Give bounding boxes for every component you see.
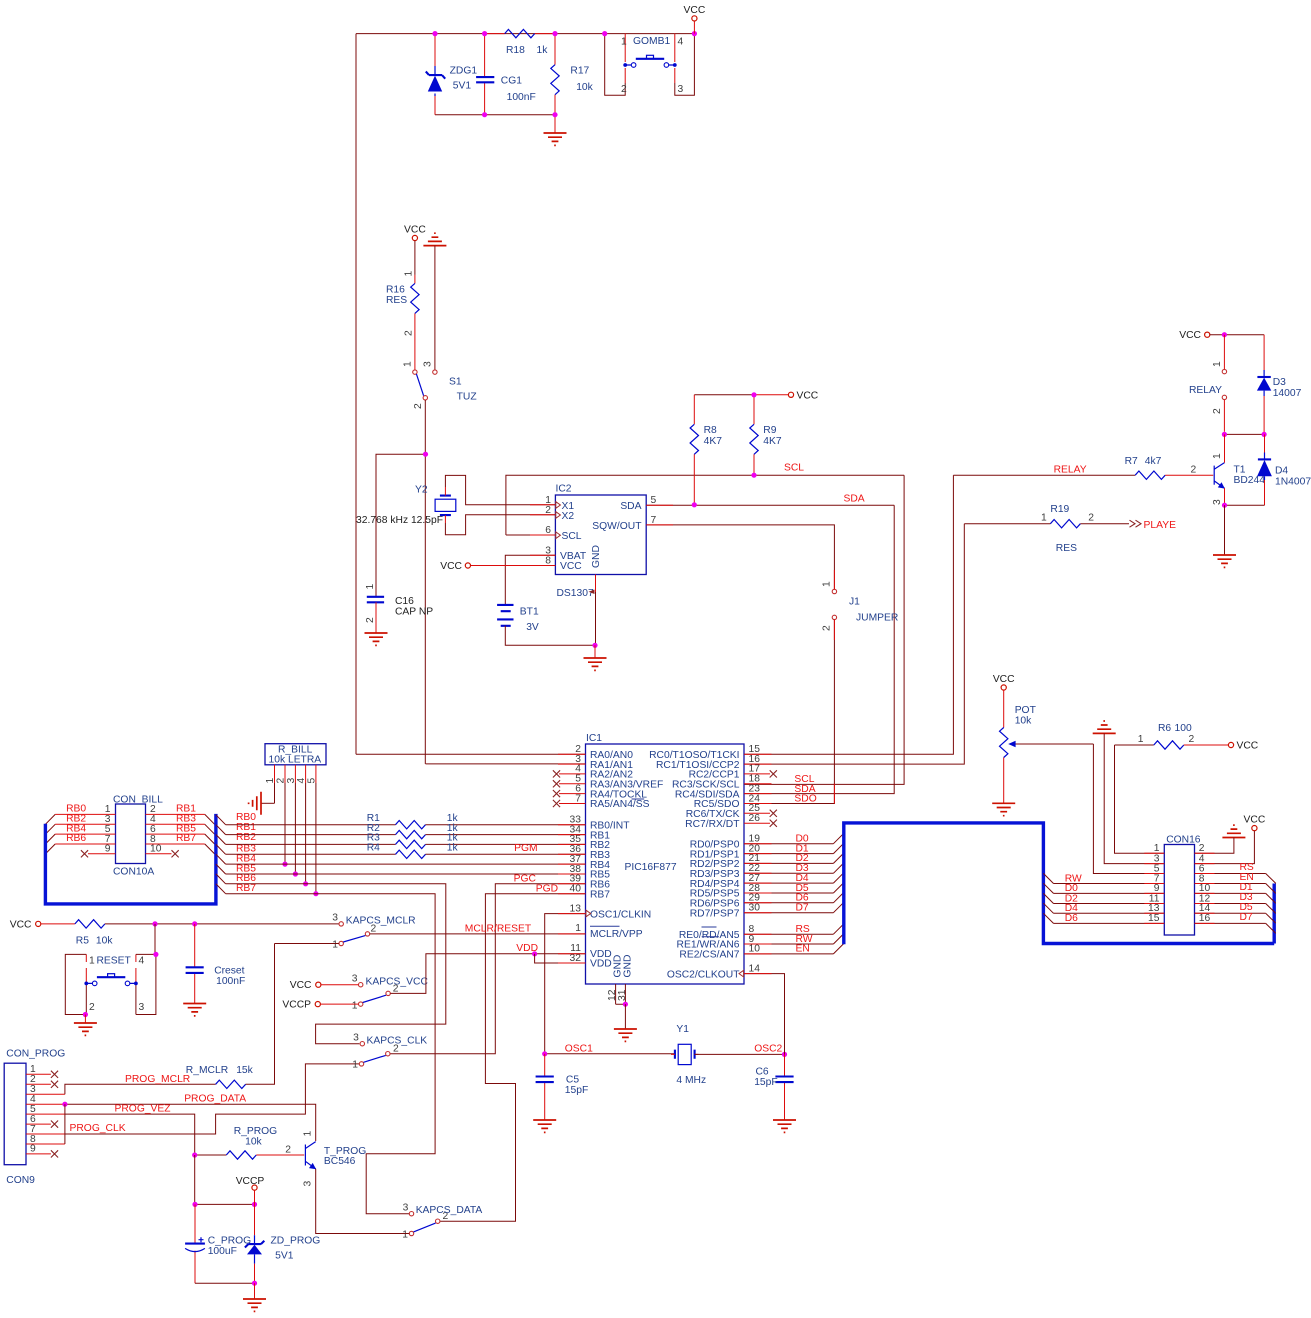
svg-text:RELAY: RELAY xyxy=(1054,464,1087,475)
wire net OSC1 xyxy=(545,1053,675,1055)
wire GND pins to ground xyxy=(624,1004,626,1029)
svg-text:VCC: VCC xyxy=(290,980,312,991)
bus entry CON_BILL pin 3 xyxy=(45,824,55,834)
svg-text:1: 1 xyxy=(1212,453,1223,459)
svg-text:EN: EN xyxy=(796,944,810,955)
bus entry D1 xyxy=(1266,893,1276,903)
wire net D5 from CON16 xyxy=(1195,912,1266,914)
IC1 pin numbers xyxy=(570,744,761,1001)
svg-text:14: 14 xyxy=(749,963,761,974)
wire OSC2 to IC1 pin14 xyxy=(744,974,785,1055)
svg-text:VCC: VCC xyxy=(404,225,426,236)
wire R_BILL pin 3 xyxy=(294,765,296,783)
wire net D2 from IC1 xyxy=(744,862,833,864)
bus entry RS xyxy=(833,924,843,934)
capacitor CG1 100nF xyxy=(476,34,536,115)
svg-text:100nF: 100nF xyxy=(216,976,245,987)
wire net SDA from IC2 SDA xyxy=(646,504,894,506)
svg-text:ZD_PROG: ZD_PROG xyxy=(271,1235,321,1246)
svg-text:PROG_VEZ: PROG_VEZ xyxy=(115,1104,171,1115)
IC1 right pin names xyxy=(649,750,740,980)
svg-text:8: 8 xyxy=(545,556,551,567)
svg-text:VCC: VCC xyxy=(1179,330,1201,341)
svg-text:RA5/AN4/SS: RA5/AN4/SS xyxy=(590,799,650,810)
wire net EN from IC1 xyxy=(744,953,833,955)
junction VDD pin11/pin32 xyxy=(532,951,537,956)
bus exit RB2 xyxy=(216,835,226,845)
power VCC xyxy=(440,561,470,572)
ground at R_BILL pin1 (rotated) xyxy=(249,792,261,815)
bus exit D4 xyxy=(1043,903,1053,913)
wire net D0 from IC1 xyxy=(744,843,833,845)
svg-text:9: 9 xyxy=(30,1144,36,1155)
pushbutton GOMB1 xyxy=(605,34,695,96)
svg-text:R6: R6 xyxy=(1158,723,1171,734)
svg-text:S1: S1 xyxy=(449,376,462,387)
power VCCP xyxy=(236,1176,265,1190)
junction VCCP / ZD_PROG xyxy=(252,1202,257,1207)
bus exit RB7 xyxy=(216,884,226,894)
svg-text:VCC: VCC xyxy=(10,919,32,930)
svg-text:1: 1 xyxy=(89,956,95,967)
svg-text:VCC: VCC xyxy=(1244,815,1266,826)
wire CON_BILL pin 9 (NC) xyxy=(88,853,116,855)
wire net D6 from IC1 xyxy=(744,902,833,904)
junction R_BILL pin4 / RB6 xyxy=(303,881,308,886)
svg-text:15k: 15k xyxy=(236,1065,253,1076)
wire CON_PROG pin4-pin8 vertical xyxy=(64,1104,66,1144)
wire net RA0 long vertical xyxy=(355,34,357,755)
svg-text:IC1: IC1 xyxy=(586,733,602,744)
bus entry D5 xyxy=(1266,913,1276,923)
svg-text:5V1: 5V1 xyxy=(275,1251,294,1262)
svg-text:3: 3 xyxy=(352,974,358,985)
junction D3 anode link xyxy=(1262,432,1267,437)
bus exit RB6 xyxy=(216,874,226,884)
svg-text:SDA: SDA xyxy=(620,501,641,512)
wire KAPCS_MCLR pin1 to R_MCLR xyxy=(275,943,340,945)
wire net RELAY down to IC1 RC0 xyxy=(744,475,953,754)
power VCC xyxy=(10,919,41,930)
capacitor C_PROG 100uF (electrolytic) xyxy=(185,1204,251,1283)
svg-text:2: 2 xyxy=(1191,464,1197,475)
bus entry D7 xyxy=(1266,923,1276,933)
J1 pin leads xyxy=(833,570,835,804)
bus entry CON_BILL pin 8 xyxy=(205,844,215,854)
wire net RB7 (to KAPCS_DATA pin3) xyxy=(226,894,436,1214)
wire CON_BILL pin 5 xyxy=(55,833,115,835)
junction CON_PROG pin4 / pin8 link xyxy=(62,1102,67,1107)
power VCCP xyxy=(282,1000,320,1011)
junction R_BILL pin3 / RB5 xyxy=(293,871,298,876)
wire net D1 from CON16 xyxy=(1195,892,1266,894)
switch KAPCS_VCC xyxy=(352,974,429,1012)
svg-text:RESET: RESET xyxy=(97,956,132,967)
wire net D7 from IC1 xyxy=(744,912,833,914)
wire IC2 GND pin down xyxy=(595,575,597,646)
wire net RB6 (to KAPCS_CLK pin3) xyxy=(226,884,446,1044)
resistor R7 4k7 xyxy=(953,456,1213,479)
wire RA0 stub xyxy=(356,753,586,755)
junction RA1 wire / C16 branch xyxy=(423,452,428,457)
svg-text:PGM: PGM xyxy=(514,843,537,854)
svg-text:32: 32 xyxy=(570,953,582,964)
svg-text:1: 1 xyxy=(352,1060,358,1071)
wire VCC rail to D3 xyxy=(1210,334,1264,336)
ground under Creset xyxy=(183,1004,206,1016)
svg-text:RE2/CS/AN7: RE2/CS/AN7 xyxy=(679,950,739,961)
svg-text:RB7: RB7 xyxy=(590,889,610,900)
wire ground to S1 pin3 xyxy=(434,246,436,370)
svg-text:1: 1 xyxy=(352,1000,358,1011)
no-connect X pin 10 xyxy=(172,850,179,857)
svg-text:Creset: Creset xyxy=(214,965,244,976)
bus exit RB3 xyxy=(216,844,226,854)
svg-text:1: 1 xyxy=(822,581,833,587)
wire net RB0 with resistor R1 1k xyxy=(226,824,396,826)
svg-text:15: 15 xyxy=(1148,913,1160,924)
svg-text:1k: 1k xyxy=(447,843,459,854)
wire IC1 NC pin stub xyxy=(559,803,586,805)
svg-text:T1: T1 xyxy=(1234,465,1246,476)
bus entry D0 xyxy=(833,833,843,843)
svg-text:PROG_MCLR: PROG_MCLR xyxy=(125,1074,190,1085)
junction R5 / RESET xyxy=(152,921,157,926)
wire net RW to CON16 xyxy=(1054,883,1165,885)
svg-text:1: 1 xyxy=(403,361,414,367)
wire ground to CON16 pin3 xyxy=(1104,733,1164,863)
svg-text:10k: 10k xyxy=(1015,716,1032,727)
capacitor C16 CAP NP xyxy=(365,584,433,634)
wire RA1 stub xyxy=(426,763,586,765)
wire CON_BILL pin 2 xyxy=(146,813,205,815)
svg-text:SQW/OUT: SQW/OUT xyxy=(592,521,642,532)
wire RELAY pin2 to D3 anode xyxy=(1224,433,1264,435)
wire net SQW to jumper J1 xyxy=(646,525,834,589)
bus entry D4 xyxy=(833,873,843,883)
svg-text:15pF: 15pF xyxy=(565,1085,588,1096)
no-connect X xyxy=(553,790,560,797)
bus entry RW xyxy=(833,934,843,944)
svg-text:BC546: BC546 xyxy=(324,1156,356,1167)
no-connect X xyxy=(770,770,777,777)
svg-text:PLAYE: PLAYE xyxy=(1144,520,1177,531)
svg-text:VCCP: VCCP xyxy=(236,1176,265,1187)
svg-text:BT1: BT1 xyxy=(520,607,539,618)
bus exit RW xyxy=(1043,873,1053,883)
wire IC1 NC pin stub xyxy=(559,783,586,785)
resistor R19 RES xyxy=(964,504,1129,554)
ground under IC1 xyxy=(614,1029,637,1041)
bus entry CON_BILL pin 2 xyxy=(205,814,215,824)
svg-text:5: 5 xyxy=(651,495,657,506)
transistor T1 BD244 xyxy=(1212,434,1265,505)
wire net VDD xyxy=(390,954,585,994)
wire T_PROG emitter to KAPCS_DATA pin1 xyxy=(316,1169,410,1234)
svg-text:PGC: PGC xyxy=(514,873,537,884)
svg-text:2: 2 xyxy=(1212,408,1223,414)
junction top rail / CG1 xyxy=(482,31,487,36)
bus LCD (thick blue) xyxy=(844,823,1274,944)
svg-text:3V: 3V xyxy=(526,622,539,633)
wire net RB2 with resistor R3 1k xyxy=(226,843,396,845)
power VCC xyxy=(1244,815,1266,831)
junction R8 / SDA xyxy=(692,502,697,507)
ground under POT xyxy=(992,803,1015,815)
ground under ZD_PROG xyxy=(243,1299,266,1311)
zener diode ZD_PROG 5V1 xyxy=(245,1204,320,1283)
wire IC1 NC pin stub xyxy=(559,793,586,795)
svg-text:VCC: VCC xyxy=(797,390,819,401)
svg-text:15pF: 15pF xyxy=(754,1077,777,1088)
power VCC xyxy=(1228,741,1258,752)
svg-text:JUMPER: JUMPER xyxy=(856,613,898,624)
ground above S1 pin3 (inverted) xyxy=(423,233,446,245)
wire net PROG_CLK xyxy=(65,1064,359,1134)
wire IC1 GND pins 12/31 xyxy=(616,984,626,1004)
bus entry CON_BILL pin 5 xyxy=(45,834,55,844)
svg-text:GND: GND xyxy=(591,545,602,568)
svg-text:7: 7 xyxy=(575,793,581,804)
svg-text:2: 2 xyxy=(404,330,415,336)
wire VCC to IC2 pin8 xyxy=(468,565,556,567)
wire VCC to KAPCS_VCC pin3 xyxy=(321,984,359,986)
junction R8/R9 rail xyxy=(751,392,756,397)
wire net D3 from CON16 xyxy=(1195,903,1266,905)
wire BT1 minus to ground node xyxy=(505,626,595,646)
svg-text:D4: D4 xyxy=(1275,466,1288,477)
svg-text:2: 2 xyxy=(822,625,833,631)
wire VCCP to KAPCS_VCC pin1 xyxy=(320,1003,358,1005)
junction RELAY pin2 / T1 collector xyxy=(1222,432,1227,437)
no-connect X xyxy=(770,810,777,817)
svg-text:26: 26 xyxy=(749,813,761,824)
switch KAPCS_MCLR xyxy=(332,913,415,951)
wire net RB1 with resistor R2 1k xyxy=(226,834,396,836)
bus exit RB5 xyxy=(216,864,226,874)
svg-text:4: 4 xyxy=(678,37,684,48)
ground under T1 xyxy=(1213,555,1236,567)
capacitor C5 15pF xyxy=(536,1054,589,1120)
svg-text:D7: D7 xyxy=(796,903,809,914)
zener diode ZDG1 xyxy=(426,34,478,115)
svg-text:C16: C16 xyxy=(395,596,414,607)
switch KAPCS_DATA xyxy=(402,1202,482,1240)
wire C_PROG to ZD_PROG bottom xyxy=(195,1282,255,1284)
svg-text:MCLR/RESET: MCLR/RESET xyxy=(465,924,532,935)
svg-text:100nF: 100nF xyxy=(507,92,536,103)
junction OSC1 / C5 xyxy=(542,1051,547,1056)
svg-text:10: 10 xyxy=(749,944,761,955)
svg-text:4k7: 4k7 xyxy=(1145,456,1162,467)
svg-text:VCC: VCC xyxy=(560,561,582,572)
svg-text:R16: R16 xyxy=(386,285,405,296)
connector CON16 box xyxy=(1164,835,1201,936)
svg-text:2: 2 xyxy=(285,1144,291,1155)
bus entry D5 xyxy=(833,883,843,893)
wire IC1 NC pin stub xyxy=(744,822,770,824)
no-connect X CON_PROG pin 9 xyxy=(51,1150,58,1157)
wire CON_PROG pin 7 xyxy=(26,1133,65,1135)
wire net OSC1 vertical xyxy=(545,914,586,1054)
connector CON_BILL CON10A box xyxy=(113,795,163,878)
junction R_BILL pin2 / RB4 xyxy=(282,862,287,867)
wire CON_PROG pin 3 xyxy=(26,1093,65,1095)
wire net D6 to CON16 xyxy=(1054,922,1165,924)
bus entry CON_BILL pin 1 xyxy=(45,814,55,824)
wire net D4 to CON16 xyxy=(1054,912,1165,914)
wire CON_BILL pin 10 (NC) xyxy=(146,853,172,855)
resistor R_PROG 10k xyxy=(195,1126,305,1159)
svg-text:R5: R5 xyxy=(76,935,89,946)
wire R_BILL pin 4 xyxy=(305,765,307,783)
wire CON_PROG pin 9 xyxy=(26,1153,51,1155)
wire Y2 bottom to IC2 X2 xyxy=(445,515,555,535)
svg-text:GOMB1: GOMB1 xyxy=(633,36,670,47)
wire net D7 from CON16 xyxy=(1195,922,1266,924)
svg-text:10k: 10k xyxy=(96,935,113,946)
wire IC2 VBAT to BT1 xyxy=(505,555,555,605)
svg-text:10k LETRA: 10k LETRA xyxy=(269,755,322,766)
svg-text:RES: RES xyxy=(1056,543,1077,554)
svg-text:VCCP: VCCP xyxy=(282,1000,311,1011)
ground under RESET xyxy=(74,1023,97,1035)
svg-text:10k: 10k xyxy=(576,82,593,93)
svg-text:CG1: CG1 xyxy=(501,76,522,87)
junction R9 / SCL xyxy=(751,473,756,478)
wire T1 emitter to D4 xyxy=(1225,504,1265,506)
wire net D3 from IC1 xyxy=(744,872,833,874)
wire R_BILL pin 2 xyxy=(284,765,286,783)
wire ground to CON16 pin2 xyxy=(1195,838,1234,854)
junction top rail / GOMB1 bracket xyxy=(602,31,607,36)
wire R9 rail to VCC xyxy=(754,394,788,396)
svg-text:1: 1 xyxy=(575,923,581,934)
svg-text:D6: D6 xyxy=(1065,913,1078,924)
wire VDD to pin 32 xyxy=(535,954,586,963)
junction top rail / R17 xyxy=(552,31,557,36)
wire net MCLR/RESET xyxy=(370,933,586,935)
resistor R5 10k xyxy=(41,920,339,947)
svg-text:J1: J1 xyxy=(849,597,860,608)
IC1 left pin names xyxy=(590,750,663,978)
wire net RB5 xyxy=(226,873,586,875)
wire net PROG_VEZ xyxy=(65,1114,195,1155)
svg-text:OSC2: OSC2 xyxy=(754,1043,782,1054)
diode D4 1N4007 xyxy=(1257,434,1311,505)
wire CON_BILL pin 1 xyxy=(55,813,115,815)
svg-text:13: 13 xyxy=(570,903,582,914)
svg-text:VCC: VCC xyxy=(993,674,1015,685)
svg-text:3: 3 xyxy=(302,1181,313,1187)
bus exit RB1 xyxy=(216,825,226,835)
wire CON_BILL pin 6 xyxy=(146,833,205,835)
svg-text:30: 30 xyxy=(749,903,761,914)
wire net SDA down to IC1 RC4 xyxy=(744,505,894,793)
jumper J1 xyxy=(822,581,899,631)
wire VCC to CON16 pin4 xyxy=(1195,831,1255,864)
svg-text:RELAY: RELAY xyxy=(1189,385,1222,396)
bus entry EN xyxy=(833,944,843,954)
svg-text:VCC: VCC xyxy=(1237,741,1259,752)
svg-text:3: 3 xyxy=(678,84,684,95)
wire bottom rail to ground xyxy=(435,114,555,116)
wire net SCL down to IC1 RC3 xyxy=(744,475,904,784)
junction top rail / ZDG1 xyxy=(432,31,437,36)
svg-text:31: 31 xyxy=(617,989,628,1001)
svg-text:VCC: VCC xyxy=(684,5,706,16)
svg-text:3: 3 xyxy=(353,1032,359,1043)
junction top rail / VCC drop xyxy=(692,31,697,36)
svg-text:32.768 kHz 12.5pF: 32.768 kHz 12.5pF xyxy=(356,515,443,526)
wire R16 to S1 xyxy=(414,341,416,370)
svg-text:C6: C6 xyxy=(756,1066,769,1077)
svg-text:2: 2 xyxy=(621,84,627,95)
bus entry EN xyxy=(1266,884,1276,894)
svg-text:SCL: SCL xyxy=(784,463,804,474)
wire net D0 to CON16 xyxy=(1054,892,1165,894)
wire CON_BILL pin 3 xyxy=(55,823,115,825)
battery BT1 3V xyxy=(497,605,539,633)
svg-text:1: 1 xyxy=(402,1229,408,1240)
junction R_BILL pin5 / RB7 xyxy=(313,891,318,896)
crystal Y2 32.768 kHz xyxy=(415,485,456,524)
wire IC1 NC pin stub xyxy=(744,773,770,775)
wire R5 junction down to RESET xyxy=(154,924,156,955)
wire VCC to rail xyxy=(693,21,695,34)
svg-text:2: 2 xyxy=(89,1002,95,1013)
svg-text:1: 1 xyxy=(621,37,627,48)
resistor R_MCLR 15k xyxy=(186,944,275,1089)
svg-text:D3: D3 xyxy=(1273,377,1286,388)
svg-text:3: 3 xyxy=(1212,499,1223,505)
svg-text:PGD: PGD xyxy=(536,883,558,894)
svg-text:MCLR/VPP: MCLR/VPP xyxy=(590,929,643,940)
wire CON_PROG pin 2 xyxy=(26,1083,51,1085)
power VCC xyxy=(1179,330,1210,341)
svg-text:Y2: Y2 xyxy=(415,485,428,496)
svg-text:9: 9 xyxy=(105,844,111,855)
junction bottom rail / R17 / ground xyxy=(552,112,557,117)
svg-text:POT: POT xyxy=(1015,705,1037,716)
svg-text:14007: 14007 xyxy=(1273,388,1302,399)
wire net EN from CON16 xyxy=(1195,883,1266,885)
IC2 pin names xyxy=(560,501,642,572)
power VCC xyxy=(404,225,426,241)
wire net PROG_MCLR xyxy=(65,1084,216,1094)
svg-text:C5: C5 xyxy=(566,1075,579,1086)
svg-text:CON16: CON16 xyxy=(1166,835,1201,846)
net port >>PLAYE xyxy=(1130,520,1142,527)
svg-text:R17: R17 xyxy=(570,66,589,77)
wire CON_PROG pin 1 xyxy=(26,1073,51,1075)
svg-text:10k: 10k xyxy=(245,1136,262,1147)
wire Y2 top to IC2 X1 xyxy=(445,475,555,504)
capacitor Creset 100nF xyxy=(186,924,246,1004)
no-connect X xyxy=(553,770,560,777)
wire CON_BILL pin 8 xyxy=(146,843,205,845)
wire POT wiper to CON16 pin5 xyxy=(1093,744,1164,874)
svg-text:3: 3 xyxy=(403,1202,409,1213)
svg-text:RB6: RB6 xyxy=(66,833,86,844)
svg-text:7: 7 xyxy=(651,515,657,526)
wire T1 emitter to ground xyxy=(1224,505,1226,555)
bus entry RS xyxy=(1266,874,1276,884)
bus CON_BILL (thick blue) xyxy=(45,814,216,904)
ground under C5 xyxy=(533,1120,556,1132)
power VCC xyxy=(993,674,1015,690)
svg-text:OSC1: OSC1 xyxy=(565,1043,593,1054)
